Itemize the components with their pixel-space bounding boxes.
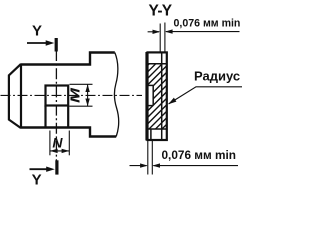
section inner horizontal bottom — [147, 128, 168, 130]
plating inner vertical (right) — [161, 52, 163, 140]
hole channel bottom edge — [148, 105, 154, 107]
part outline: chamfered left end — [9, 64, 21, 128]
dimension M line with arrows — [87, 84, 89, 106]
plating short vertical bottom strip — [150, 129, 152, 140]
chamfer boundary vertical — [20, 64, 22, 129]
svg-text:N: N — [52, 135, 63, 151]
top dimension right arrow — [166, 31, 240, 33]
dimension N extension lines — [49, 131, 51, 156]
bottom dimension right arrow — [153, 165, 238, 167]
part outline: top edge — [21, 53, 115, 65]
slot left edge below square — [44, 106, 46, 129]
bottom dimension left arrow — [130, 165, 147, 167]
dimension N line with arrows — [50, 150, 69, 152]
section marker top bar — [55, 38, 58, 52]
part outline: bottom edge — [21, 128, 116, 137]
svg-text:0,076 мм min: 0,076 мм min — [162, 148, 237, 162]
svg-text:Y: Y — [32, 171, 42, 188]
bottom dimension extension lines — [147, 141, 149, 175]
svg-text:0,076 мм min: 0,076 мм min — [174, 18, 241, 30]
dimension M extension lines — [70, 83, 93, 85]
hole channel top edge — [148, 84, 154, 86]
section marker bottom bar — [55, 160, 58, 174]
top dimension left arrow — [148, 31, 159, 33]
section inner horizontal top — [147, 63, 168, 65]
section marker bottom arrow — [30, 168, 49, 170]
break line (wavy) — [114, 53, 118, 137]
top dimension extension lines — [159, 24, 161, 52]
square hole — [46, 86, 69, 106]
svg-text:M: M — [68, 86, 83, 103]
hatching — [140, 0, 260, 164]
section outer rectangle — [148, 52, 167, 140]
svg-text:Радиус: Радиус — [194, 69, 240, 84]
radius leader — [169, 87, 242, 104]
vertical section trace line Y-Y — [55, 50, 57, 161]
svg-text:Y: Y — [32, 23, 42, 40]
plating outer line (left, doubled edge) — [145, 52, 147, 141]
hole channel wall vertical — [152, 85, 154, 105]
section marker top arrow — [27, 42, 48, 44]
svg-text:Y-Y: Y-Y — [149, 2, 173, 19]
slot right edge below square — [67, 106, 69, 129]
horizontal centerline — [1, 94, 143, 96]
